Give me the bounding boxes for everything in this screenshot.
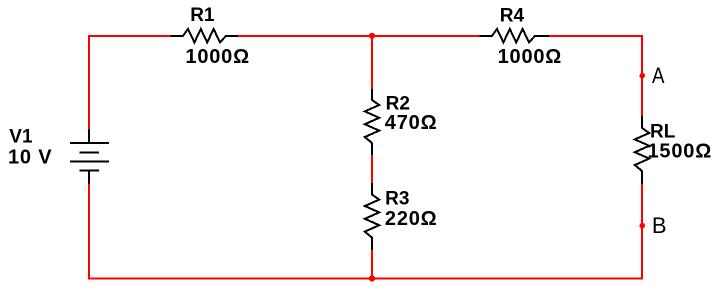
resistor R3 symbol (365, 183, 379, 250)
svg-text:B: B (652, 213, 667, 238)
wire top-right loop (R4 right to RL top, node A) (549, 36, 642, 117)
battery V1 top lead (88, 130, 90, 144)
svg-text:10 V: 10 V (8, 147, 52, 169)
battery V1 bottom lead (88, 171, 90, 184)
wire top middle (R1 right to R4 left) (238, 35, 480, 37)
wire top-left loop (battery top to R1 left) (89, 36, 171, 130)
resistor R1 symbol (170, 29, 238, 42)
svg-text:R1: R1 (190, 5, 215, 26)
node B pin dot (639, 223, 645, 229)
node A pin dot (639, 73, 645, 79)
junction top (middle branch / top rail) (369, 33, 375, 39)
svg-text:R4: R4 (500, 5, 525, 26)
resistor RL symbol (635, 116, 649, 184)
wire middle branch bottom (R3 to bottom rail) (371, 249, 373, 278)
wire bottom loop (RL bottom, node B, bottom rail, battery bottom) (89, 183, 642, 279)
battery V1 plate 2 short (80, 151, 100, 153)
resistor R4 symbol (479, 29, 549, 42)
battery V1 plate 3 long (70, 160, 109, 162)
svg-text:V1: V1 (9, 126, 33, 147)
svg-text:470Ω: 470Ω (385, 112, 438, 134)
battery V1 plate 4 short (80, 170, 100, 172)
svg-text:220Ω: 220Ω (385, 208, 438, 230)
svg-text:1000Ω: 1000Ω (185, 46, 250, 68)
svg-text:1000Ω: 1000Ω (498, 46, 563, 68)
wire middle branch mid (R2 to R3) (371, 154, 373, 184)
wire middle branch top (junction to R2) (371, 36, 373, 90)
resistor R2 symbol (365, 89, 379, 155)
battery V1 plate 1 long (70, 142, 109, 144)
svg-text:R3: R3 (385, 188, 409, 209)
svg-text:RL: RL (650, 122, 676, 143)
svg-text:A: A (652, 65, 665, 89)
junction bottom (middle branch / bottom rail) (369, 275, 375, 281)
svg-text:1500Ω: 1500Ω (648, 141, 713, 163)
